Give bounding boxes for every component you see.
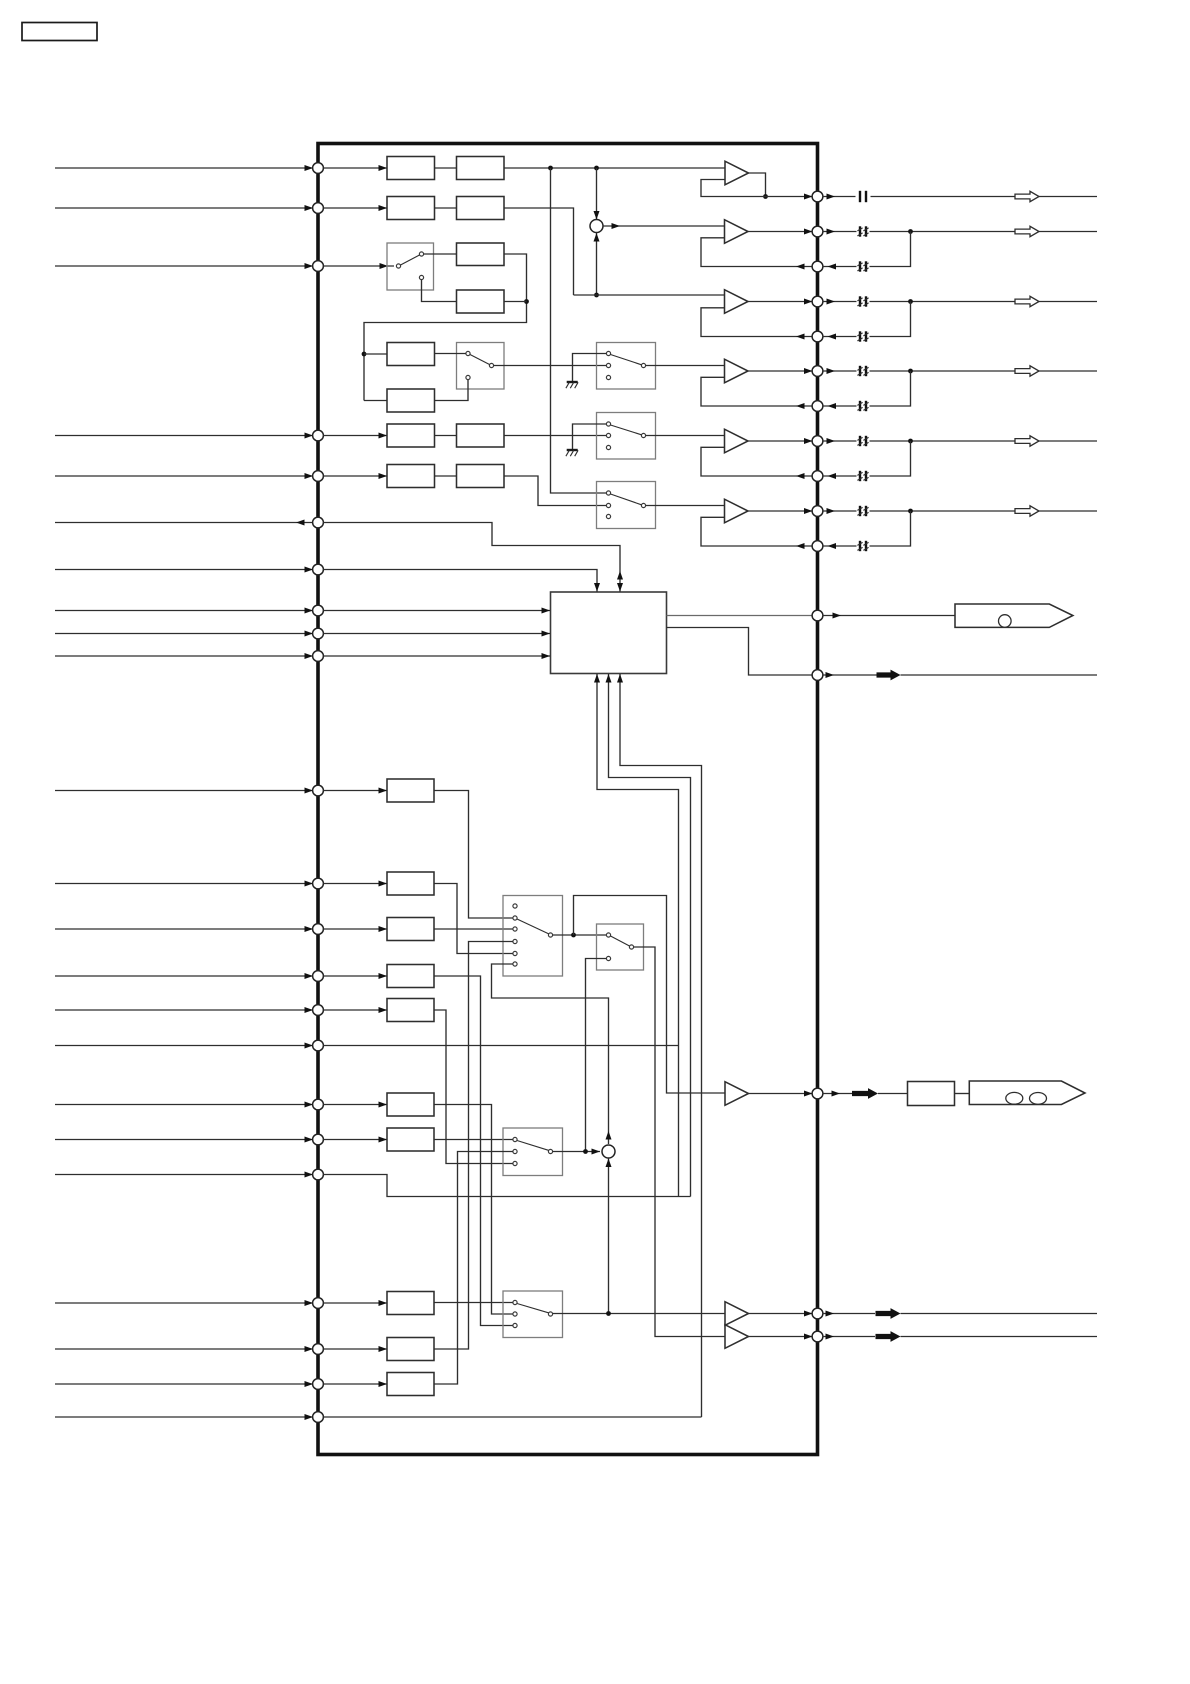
SWB throw1 — [606, 422, 610, 426]
SW4 pole — [629, 945, 633, 949]
pin terminal IN4 — [313, 430, 324, 441]
SW6 throw1 — [513, 1300, 517, 1304]
op-amp A5 — [725, 429, 749, 453]
wire external lead IN22 — [55, 1414, 313, 1420]
wire external lead IN8 — [55, 631, 313, 637]
SWB throw3 — [606, 445, 610, 449]
wire external lead IN20 — [55, 1346, 313, 1352]
wire A5 feedback return — [701, 447, 813, 479]
junction OUT5 feedback tap — [908, 439, 913, 444]
wire G5 to SW5 t3 — [434, 1010, 513, 1164]
wire OUT1 lead — [823, 194, 856, 200]
SWA throw3 — [606, 375, 610, 379]
ground GND1 — [566, 382, 578, 388]
SWA throw1 — [606, 351, 610, 355]
wire external lead IN15 — [55, 1043, 313, 1049]
wire IN9 to U2 — [323, 653, 550, 659]
wire J1 down to SWC throw1 — [551, 168, 607, 493]
pin terminal IN9 — [313, 651, 324, 662]
pin terminal OUT5 — [812, 436, 823, 447]
capacitor C2a — [857, 226, 868, 236]
connector JACK2 ring2 — [1030, 1093, 1047, 1105]
pin terminal LOUT-R — [812, 1331, 823, 1342]
wire SW6 pole to A8 — [553, 1313, 725, 1315]
wire EQ3a wrap to row4 group — [364, 254, 527, 401]
junction SW3 out — [571, 933, 576, 938]
wire IN12 to G3 — [323, 928, 387, 930]
arrow into EQ5a — [379, 433, 388, 439]
pin terminal IN21 — [313, 1379, 324, 1390]
pin terminal IN22 — [313, 1412, 324, 1423]
SWA lever — [611, 355, 642, 365]
SW3 lever — [517, 919, 549, 934]
wire IN5 to EQ6a — [323, 475, 387, 477]
pin terminal OUT3 — [812, 296, 823, 307]
wire IN13 to G4 — [323, 975, 387, 977]
wire IN14 to G5 — [323, 1009, 387, 1011]
block G4 — [387, 965, 434, 988]
switch SWA box — [597, 343, 656, 390]
capacitor C3b — [857, 331, 868, 341]
wire SWA to A4 — [646, 365, 725, 367]
wire A2 out to terminal — [748, 229, 813, 235]
arrow into SW1 — [380, 263, 389, 269]
wire IN19 to H1 — [323, 1302, 387, 1304]
wire A1 feedback — [701, 180, 766, 197]
SWC throw2 — [606, 503, 610, 507]
junction OUT4 feedback tap — [908, 369, 913, 374]
wire EQ5a-EQ5b — [435, 435, 457, 437]
wire R-block to JACK2 — [955, 1093, 970, 1095]
wire IN2 to EQ2a — [323, 207, 387, 209]
wire IN6 to U2 top pin1 — [323, 570, 597, 592]
block EQ4b — [387, 389, 435, 412]
wire external lead IN11 — [55, 881, 313, 887]
wire external lead IN6 — [55, 567, 313, 573]
wire OUT6 line — [870, 510, 1098, 512]
wire external lead IN2 — [55, 205, 313, 211]
arrow into H2 — [379, 1346, 388, 1352]
capacitor C4b — [857, 401, 868, 411]
SWB throw2 — [606, 433, 610, 437]
pin terminal LOUT-L — [812, 1308, 823, 1319]
SW3 throw3 — [513, 927, 517, 931]
wire H1 to SW6 t1 — [434, 1302, 513, 1304]
SW6 throw3 — [513, 1323, 517, 1327]
pin terminal IN14 — [313, 1005, 324, 1016]
pin terminal FB5 — [812, 471, 823, 482]
capacitor C6b — [857, 541, 868, 551]
arrow into H1 — [379, 1300, 388, 1306]
pin terminal OUT2 — [812, 226, 823, 237]
wire IN15 to pin1 net — [323, 1045, 679, 1047]
arrow into summing node bottom — [594, 233, 600, 242]
wire feedback drop OUT6 — [870, 511, 911, 546]
wire A6 out to terminal — [748, 508, 813, 514]
capacitor C4a — [857, 366, 868, 376]
control block U2 — [551, 592, 667, 674]
switch SW2 box — [457, 343, 505, 390]
wire row2 to mix bus — [504, 208, 574, 295]
op-amp A4 — [725, 359, 749, 383]
pin terminal IN1 — [313, 163, 324, 174]
pin terminal OUT-REC — [313, 517, 324, 528]
SWC lever — [611, 494, 642, 505]
SW3 throw4 — [513, 939, 517, 943]
wire U2 bottom pin3 route — [620, 674, 702, 1417]
arrow into G7 — [379, 1137, 388, 1143]
SW2 pole — [489, 363, 493, 367]
capacitor C1 — [859, 191, 867, 202]
SW5 lever — [517, 1141, 549, 1151]
wire FB4 lead — [823, 403, 857, 409]
bus arrow CTRL — [877, 670, 901, 681]
wire HP to R-block — [878, 1093, 908, 1095]
wire external lead IN5 — [55, 473, 313, 479]
wire JACK1 lead — [823, 613, 956, 619]
switch SWC box — [597, 482, 656, 529]
wire A4 feedback return — [701, 377, 813, 409]
SW6 throw2 — [513, 1312, 517, 1316]
SWC throw1 — [606, 491, 610, 495]
wire A9 out — [749, 1334, 813, 1340]
pin terminal IN17 — [313, 1134, 324, 1145]
wire G1 to SW3 t2 — [434, 791, 513, 919]
SW3 pole — [548, 933, 552, 937]
junction EQ3b out — [524, 299, 529, 304]
junction A1 out — [763, 194, 768, 199]
wire EQ4b to SW2 — [435, 380, 469, 401]
block EQ2a — [387, 197, 435, 220]
pin terminal FB6 — [812, 541, 823, 552]
arrow loop up — [606, 1131, 612, 1140]
SWA throw2 — [606, 363, 610, 367]
wire feedback drop OUT2 — [870, 232, 911, 267]
switch SW6 box — [503, 1291, 563, 1338]
wire external lead IN10 — [55, 788, 313, 794]
wire SW3 t6 loop — [492, 964, 609, 1144]
wire external lead IN7 — [55, 608, 313, 614]
arrow into H3 — [379, 1381, 388, 1387]
wire IN16 to G6 — [323, 1104, 387, 1106]
junction row1/J2 — [594, 166, 599, 171]
wire external lead OUT-REC — [55, 520, 313, 526]
arrow into S2 bottom — [606, 1159, 612, 1168]
junction row4 tee — [362, 352, 367, 357]
wire SWC to A6 — [646, 505, 725, 507]
wire ground stub GND2 — [573, 424, 607, 450]
pin terminal FB4 — [812, 401, 823, 412]
wire A5 out to terminal — [748, 438, 813, 444]
junction row1/J1 — [548, 166, 553, 171]
wire A4 out to terminal — [748, 368, 813, 374]
connector arrow OUT4 — [1015, 366, 1039, 376]
wire IN22 to pin3 net — [323, 1416, 702, 1418]
wire feedback drop OUT3 — [870, 302, 911, 337]
arrow U2 bottom pin1 — [594, 674, 600, 683]
arrow U2 top pin2 up — [617, 571, 623, 580]
SW5 pole — [548, 1149, 552, 1153]
wire external lead IN14 — [55, 1007, 313, 1013]
wire IN4 to EQ5a — [323, 435, 387, 437]
wire S2 bottom feed — [608, 1158, 610, 1314]
block EQ6a — [387, 465, 435, 488]
block G5 — [387, 999, 434, 1022]
block EQ2b — [457, 197, 505, 220]
connector arrow OUT5 — [1015, 436, 1039, 446]
wire OUT4 line — [870, 370, 1098, 372]
pin terminal IN8 — [313, 628, 324, 639]
wire LOUT-R line — [901, 1336, 1098, 1338]
bus arrow LOUT-R — [876, 1331, 901, 1342]
wire EQ2a-EQ2b — [435, 207, 457, 209]
SW3 throw6 — [513, 962, 517, 966]
wire IN3 to SW1 — [323, 265, 394, 267]
wire SWB to A5 — [646, 435, 725, 437]
block EQ5a — [387, 424, 435, 447]
op-amp A7 (headphone) — [725, 1082, 749, 1106]
block G2 — [387, 872, 434, 895]
wire U2 out1 to JACK1 terminal — [667, 615, 813, 617]
wire external lead IN3 — [55, 263, 313, 269]
wire EQ1a-EQ1b — [435, 167, 457, 169]
wire G4 to SW6 t3 — [434, 976, 513, 1326]
SW1 throw up — [419, 252, 423, 256]
SW1 lever — [401, 255, 420, 265]
pin terminal IN16 — [313, 1099, 324, 1110]
arrow into S2 — [592, 1149, 601, 1155]
wire external lead IN9 — [55, 653, 313, 659]
wire FB5 lead — [823, 473, 857, 479]
pin terminal IN11 — [313, 878, 324, 889]
wire row1 bus — [504, 167, 725, 169]
arrow into EQ1a — [379, 165, 388, 171]
wire A3 out to terminal — [748, 299, 813, 305]
block G7 — [387, 1128, 434, 1151]
wire FB3 lead — [823, 334, 857, 340]
pin terminal IN2 — [313, 203, 324, 214]
junction OUT6 feedback tap — [908, 509, 913, 514]
arrow U2 top pin2 down — [617, 583, 623, 592]
arrow into summing node top — [594, 211, 600, 220]
wire external lead IN12 — [55, 926, 313, 932]
connector JACK2 body — [969, 1081, 1085, 1105]
block H3 — [387, 1373, 434, 1396]
SW1 pole contact — [396, 264, 400, 268]
pin terminal IN10 — [313, 785, 324, 796]
wire SW5 pole out — [553, 1151, 600, 1153]
pin terminal JACK1-OUT — [812, 610, 823, 621]
wire IN8 to U2 — [323, 631, 550, 637]
ground GND2 — [566, 450, 578, 456]
SW5 throw3 — [513, 1161, 517, 1165]
wire IN11 to G2 — [323, 883, 387, 885]
capacitor C5b — [857, 471, 868, 481]
wire EQ4a to SW2 — [435, 353, 466, 355]
wire EQ6a-EQ6b — [435, 475, 457, 477]
wire OUT3 line — [870, 301, 1098, 303]
block H1 — [387, 1292, 434, 1315]
wire EQ6b to SWC throw2 — [504, 476, 606, 506]
wire G6 to SW6 t2 — [434, 1105, 513, 1315]
wire OUT2 lead — [823, 229, 857, 235]
pin terminal FB2 — [812, 261, 823, 272]
summing node S1 — [590, 220, 603, 233]
wire IN7 to U2 — [323, 608, 550, 614]
wire J2 down to summing node — [596, 168, 598, 219]
wire external lead IN19 — [55, 1300, 313, 1306]
wire SW1 down to EQ3b — [422, 280, 457, 302]
pin terminal IN19 — [313, 1298, 324, 1309]
SW2 throw down — [466, 375, 470, 379]
pin terminal IN13 — [313, 971, 324, 982]
block EQ3b — [457, 290, 505, 313]
block EQ1a — [387, 157, 435, 180]
SW5 throw1 — [513, 1137, 517, 1141]
wire A1 out to OUT1 — [766, 194, 813, 200]
connector arrow OUT1 — [1015, 191, 1039, 201]
summing node S2 — [602, 1145, 615, 1158]
wire CTRL line — [901, 674, 1098, 676]
pin terminal OUT1 — [812, 191, 823, 202]
wire HP lead — [823, 1091, 853, 1097]
arrow U2 top pin1 — [594, 583, 600, 592]
wire external lead IN13 — [55, 973, 313, 979]
junction S2 in — [583, 1149, 588, 1154]
pin terminal IN6 — [313, 564, 324, 575]
wire feedback drop OUT4 — [870, 371, 911, 406]
SW4 throw up — [606, 933, 610, 937]
wire A7 out — [749, 1091, 813, 1097]
SWC pole — [641, 503, 645, 507]
wire SW3 t4 down-route — [434, 942, 513, 1350]
wire FB2 lead — [823, 264, 857, 270]
wire IN17 to G7 — [323, 1139, 387, 1141]
wire IN10 to G1 — [323, 790, 387, 792]
arrow into G3 — [379, 926, 388, 932]
junction SW6/S2 — [606, 1311, 611, 1316]
block EQ6b — [457, 465, 505, 488]
capacitor C6a — [857, 506, 868, 516]
wire A1 out jog — [749, 173, 766, 197]
connector JACK1 body — [955, 604, 1073, 627]
connector JACK2 ring1 — [1006, 1092, 1023, 1104]
wire OUT-REC to U2 top pin2 — [323, 523, 620, 592]
op-amp A3 — [725, 290, 749, 314]
op-amp A1 — [725, 161, 749, 185]
arrow into EQ2a — [379, 205, 388, 211]
wire H3 to SW5 t2 — [434, 1152, 513, 1385]
wire OUT5 lead — [823, 438, 857, 444]
arrow into G5 — [379, 1007, 388, 1013]
capacitor C2b — [857, 261, 868, 271]
wire SW1 up to EQ3a — [424, 253, 457, 255]
pin terminal IN12 — [313, 924, 324, 935]
bus arrow HP — [852, 1088, 878, 1099]
wire OUT2 line — [870, 231, 1098, 233]
wire A6 feedback return — [701, 517, 813, 549]
SW5 throw2 — [513, 1149, 517, 1153]
wire SW3 out to HP route — [574, 896, 726, 1094]
arrow into G2 — [379, 881, 388, 887]
wire SW2 to SWA — [494, 365, 607, 367]
wire LOUT-R lead — [823, 1334, 876, 1340]
pin terminal OUT4 — [812, 366, 823, 377]
switch SW5 box — [503, 1128, 563, 1176]
SW6 pole — [548, 1312, 552, 1316]
wire summing node bottom feed — [596, 233, 598, 296]
connector JACK1 ring — [999, 615, 1012, 628]
switch SW4 box — [597, 924, 644, 970]
junction OUT2 feedback tap — [908, 229, 913, 234]
block G1 — [387, 779, 434, 802]
op-amp A8 — [725, 1302, 749, 1326]
wire U2 out2 jog — [667, 628, 813, 676]
wire external lead IN18 — [55, 1172, 313, 1178]
SW1 throw down — [419, 275, 423, 279]
SW2 lever — [470, 355, 490, 365]
wire summing out to A2 — [603, 223, 725, 229]
block EQ1b — [457, 157, 505, 180]
pin terminal IN15 — [313, 1040, 324, 1051]
wire OUT6 lead — [823, 508, 857, 514]
arrow into G4 — [379, 973, 388, 979]
SW4 lever — [611, 936, 630, 946]
op-amp A2 — [725, 220, 749, 244]
SW3 throw5 — [513, 951, 517, 955]
wire OUT4 lead — [823, 368, 857, 374]
arrow into EQ6a — [379, 473, 388, 479]
pin terminal IN18 — [313, 1169, 324, 1180]
op-amp A9 — [725, 1325, 749, 1349]
wire C1 to line OUT1 — [871, 196, 1098, 198]
wire U2 bottom pin2 route — [609, 674, 691, 1197]
wire EQ3b join — [504, 301, 527, 303]
pin terminal HP-OUT — [812, 1088, 823, 1099]
arrow U2 bottom pin2 — [606, 674, 612, 683]
wire ground stub GND1 — [573, 354, 607, 383]
junction OUT3 feedback tap — [908, 299, 913, 304]
switch SWB box — [597, 413, 656, 460]
block H2 — [387, 1338, 434, 1361]
block EQ3a — [457, 243, 505, 266]
wire LOUT-L line — [901, 1313, 1098, 1315]
wire feedback drop OUT5 — [870, 441, 911, 476]
wire IN20 to H2 — [323, 1348, 387, 1350]
SW2 throw up — [466, 351, 470, 355]
block EQ4a — [387, 343, 435, 366]
SW6 lever — [517, 1304, 549, 1313]
pin terminal FB3 — [812, 331, 823, 342]
wire IN18 to pin2 net — [323, 1175, 691, 1197]
junction row2/J3 — [594, 293, 599, 298]
block G3 — [387, 918, 434, 941]
pin terminal IN20 — [313, 1344, 324, 1355]
wire A3 feedback return — [701, 308, 813, 340]
wire external lead IN1 — [55, 165, 313, 171]
pin terminal IN5 — [313, 471, 324, 482]
wire EQ5b to SWB — [504, 435, 606, 437]
switch SW1 box — [387, 243, 434, 290]
pin terminal CTRL-OUT — [812, 670, 823, 681]
wire G3 to SW3 t3 — [434, 928, 513, 930]
wire CTRL-OUT lead — [823, 672, 877, 678]
capacitor C3a — [857, 296, 868, 306]
connector arrow OUT3 — [1015, 296, 1039, 306]
connector arrow OUT2 — [1015, 226, 1039, 236]
capacitor C5a — [857, 436, 868, 446]
arrow U2 bottom pin3 — [617, 674, 623, 683]
